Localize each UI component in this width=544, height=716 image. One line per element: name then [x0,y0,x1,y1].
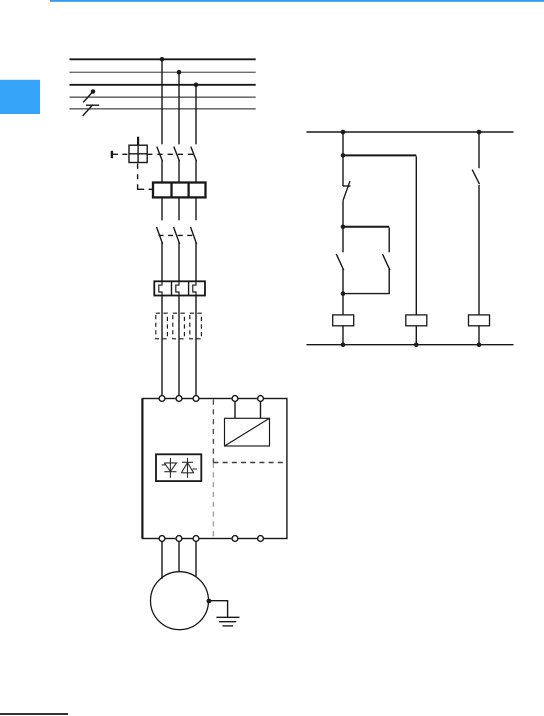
thyristor block box [156,454,201,481]
wire coil K1 to rail [342,326,344,345]
wire L1 drop [161,59,163,144]
breaker pole 1 blade [157,147,163,162]
left blue chapter tab [0,80,40,114]
terminal 3L2 [176,396,182,402]
node A4 [341,291,346,296]
node A2 [341,153,346,158]
node rail A5 [341,342,346,347]
wire pole3 to starter [195,296,197,396]
wire pole3 to trip unit [195,160,197,182]
top blue rule [50,0,544,2]
operator stub [137,137,139,146]
wire coil K3 to rail [478,326,480,345]
N tap slash [83,92,93,103]
wire pole1 [161,197,163,220]
terminal 2T1 [159,536,165,542]
wire branch B top [478,132,480,168]
heater jog pole3 [193,281,196,295]
terminal 6T3 [193,536,199,542]
wire control A [234,401,236,418]
contact S1 NO blade [336,254,344,270]
wire middle branch [415,156,417,315]
wire to coil K1 [342,269,344,315]
wire thick link to middle branch [343,154,416,156]
node rail B1 [477,130,482,135]
node rail A1 [341,130,346,135]
PE marker bar [86,104,99,106]
optional fuse pole3 [190,313,202,339]
node N tap dot [91,89,96,94]
wire coil K2 to rail [415,326,417,345]
wire pole2 [178,197,180,220]
heater jog pole1 [159,281,162,295]
internal dashed divider vertical [212,400,214,463]
terminal 5L3 [193,396,199,402]
contact F1 NC foot [343,185,351,187]
bus N [70,96,256,98]
terminal control B [258,396,264,402]
wire pole1 to trip unit [161,160,163,182]
heater jog pole2 [176,281,179,295]
wire pole2 [178,242,180,281]
node A3 [341,225,346,230]
node rail M1 [414,342,419,347]
motor M1 [151,572,209,630]
terminal control A [232,396,238,402]
handle bar [111,151,113,158]
wire motor lead3 [195,541,197,576]
contactor pole2 blade [174,227,180,244]
contact K1 aux NO blade [382,254,390,270]
node L2 tap [177,70,182,75]
overload relay F1 box [154,281,205,295]
breaker mech dashed link [147,153,196,155]
contactor mech dashed link [159,234,194,236]
terminal 4T2 [176,536,182,542]
node L3 tap [194,83,199,88]
wire [342,201,344,253]
breaker pole 3 blade [191,147,197,162]
terminal 1L1 [159,396,165,402]
softstarter U1 enclosure [142,399,287,539]
node rail B2 [477,342,482,347]
thyristor V1 (left, down) [162,458,177,478]
wire pole2 to trip unit [178,160,180,182]
wire bottom rail [307,344,514,346]
terminal control D [258,536,264,542]
wire thick link to parallel contact [343,226,389,228]
wire pole1 to starter [161,296,163,396]
dashed trip link vertical [137,164,139,169]
wire pole2 to starter [178,296,180,396]
handle dashed link [113,153,129,155]
bus L2 [70,71,256,73]
wire top rail [307,131,514,133]
wire pole3 [195,242,197,281]
wire motor lead2 [178,541,180,571]
wire branch A top [342,132,344,186]
terminal control C [232,536,238,542]
wire motor lead1 [161,541,163,578]
wire L3 drop [195,85,197,145]
breaker Q1 operator box [129,145,147,162]
node L1 tap [160,57,165,62]
PE marker slash [83,105,93,116]
wire parallel branch down [388,228,390,253]
optional fuse F2 pole1 (dashed) [156,313,168,339]
wire to ground [209,601,228,618]
wire pole1 [161,242,163,281]
internal dashed divider horizontal [213,462,287,464]
breaker pole 2 blade [174,147,180,162]
control supply block [225,418,270,446]
thyristor V2 (right, up) [181,458,197,478]
bus L3 [70,84,256,86]
optional fuse pole2 [173,313,185,339]
bus L1 [70,58,256,60]
wire control B [260,401,262,418]
wire pole3 [195,197,197,220]
contactor K1 pole1 blade [157,227,163,244]
coil K3 [469,315,490,326]
node PE junction on motor [207,599,212,604]
bus PE [70,108,256,110]
wire L2 drop [178,72,180,144]
wire branch B [478,185,480,315]
contact F1 NC blade [343,181,350,201]
coil K1 [333,315,354,326]
contactor pole3 blade [191,227,197,244]
contact K2 aux NO blade [472,170,479,185]
coil K2 [406,315,427,326]
breaker trip-unit box [153,183,206,198]
footer rule [0,713,68,715]
ground [216,616,239,618]
wire parallel branch return [343,269,389,294]
